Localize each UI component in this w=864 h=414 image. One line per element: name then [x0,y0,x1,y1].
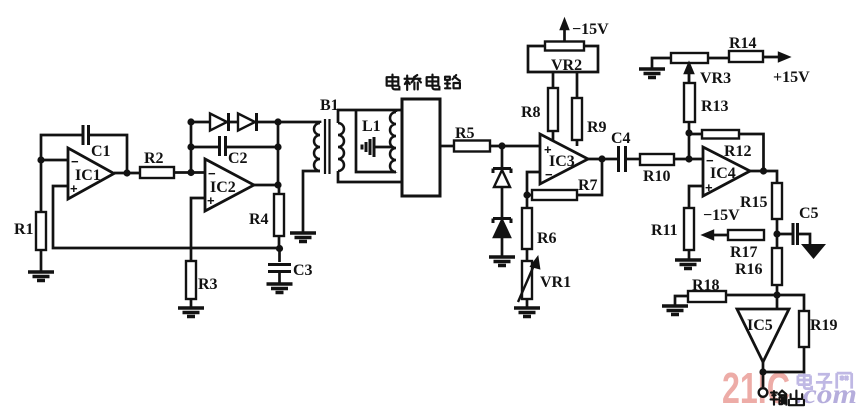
svg-text:VR2: VR2 [551,57,582,74]
svg-text:R13: R13 [701,98,729,115]
svg-text:R7: R7 [578,177,598,194]
svg-text:R4: R4 [249,211,269,228]
svg-text:R17: R17 [730,244,758,261]
svg-text:R9: R9 [587,119,607,136]
svg-text:R18: R18 [692,277,720,294]
svg-text:R19: R19 [810,317,838,334]
svg-text:R12: R12 [724,143,752,160]
svg-text:C5: C5 [799,205,819,222]
svg-text:IC3: IC3 [549,153,575,170]
svg-text:IC1: IC1 [75,167,101,184]
svg-text:R8: R8 [521,104,541,121]
svg-text:−15V: −15V [703,207,740,224]
svg-text:−15V: −15V [572,21,609,38]
svg-text:R15: R15 [740,194,768,211]
svg-text:R3: R3 [198,276,218,293]
svg-text:L1: L1 [362,118,381,135]
svg-text:IC4: IC4 [710,165,736,182]
svg-text:VR1: VR1 [540,274,571,291]
svg-text:R14: R14 [729,35,757,52]
svg-text:R2: R2 [144,150,164,167]
svg-text:IC5: IC5 [747,317,773,334]
svg-text:R10: R10 [643,168,671,185]
svg-text:R6: R6 [537,230,557,247]
svg-text:R1: R1 [14,221,34,238]
svg-text:C4: C4 [611,130,631,147]
svg-text:+15V: +15V [773,69,810,86]
svg-text:R5: R5 [455,125,475,142]
svg-text:R11: R11 [651,222,678,239]
svg-text:C3: C3 [293,262,313,279]
svg-text:C2: C2 [228,150,248,167]
svg-text:IC2: IC2 [210,179,236,196]
svg-text:C1: C1 [91,143,111,160]
svg-text:B1: B1 [320,97,339,114]
svg-text:+: + [705,180,713,195]
svg-text:VR3: VR3 [700,70,731,87]
svg-text:R16: R16 [735,261,763,278]
